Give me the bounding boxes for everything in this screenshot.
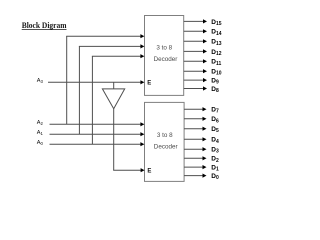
wire output D6 of U2 [184, 117, 206, 121]
decoder U1 (3 to 8 Decoder, top) [145, 16, 184, 96]
svg-text:D1: D1 [211, 165, 219, 173]
label D0 [211, 173, 219, 181]
wire output D0 of U2 [184, 174, 206, 178]
svg-text:3 to 8: 3 to 8 [156, 44, 172, 51]
wire branch A0 vertical [91, 56, 93, 144]
wire output D2 of U2 [184, 156, 206, 160]
label D8 [211, 86, 219, 94]
svg-text:D12: D12 [211, 49, 221, 57]
svg-text:E: E [147, 168, 151, 174]
svg-text:D13: D13 [211, 39, 221, 47]
svg-text:D10: D10 [211, 69, 221, 77]
label D1 [211, 165, 219, 173]
pin E of U2 [147, 168, 151, 174]
label D6 [211, 116, 219, 124]
svg-text:D9: D9 [211, 78, 219, 86]
svg-text:D5: D5 [211, 126, 219, 134]
wire A3 to E of U1 [48, 80, 144, 84]
svg-text:D6: D6 [211, 116, 219, 124]
svg-text:A0: A0 [37, 140, 44, 146]
wire inverter output vertical [113, 109, 115, 171]
label D2 [211, 156, 219, 164]
label A3 [37, 78, 44, 84]
label A0 [37, 140, 44, 146]
wire output D5 of U2 [184, 127, 206, 131]
wire output D7 of U2 [184, 107, 206, 111]
wire A1 to U2 input [50, 132, 145, 136]
svg-text:Decoder: Decoder [154, 56, 178, 63]
wire output D14 of U1 [184, 29, 207, 33]
label D5 [211, 126, 219, 134]
svg-text:D4: D4 [211, 137, 219, 145]
label D4 [211, 137, 219, 145]
title "Block Digram" [22, 20, 68, 30]
wire output D12 of U1 [184, 49, 207, 53]
wire output D11 of U1 [184, 59, 207, 63]
svg-text:A2: A2 [37, 120, 44, 126]
svg-text:D14: D14 [211, 29, 221, 37]
svg-text:D11: D11 [211, 59, 221, 67]
wire output D3 of U2 [184, 147, 206, 151]
svg-text:A1: A1 [37, 130, 44, 136]
wire A0 to U1 input [92, 54, 144, 58]
wire A1 to U1 input [79, 44, 144, 48]
wire output D13 of U1 [184, 39, 207, 43]
label D9 [211, 78, 219, 86]
wire output D8 of U1 [184, 86, 207, 90]
pin E of U1 [147, 80, 151, 86]
label D3 [211, 147, 219, 155]
wire output D1 of U2 [184, 165, 206, 169]
decoder U2 (3 to 8 Decoder, bottom) [145, 102, 185, 181]
svg-text:3 to 8: 3 to 8 [157, 132, 173, 139]
svg-text:D3: D3 [211, 147, 219, 155]
wire A3 to inverter input [113, 82, 115, 89]
wire branch A1 vertical [78, 46, 80, 134]
wire A2 to U2 input [50, 122, 145, 126]
svg-text:D2: D2 [211, 156, 219, 164]
inverter U3 (NOT gate on A3) [102, 89, 124, 109]
wire output D10 of U1 [184, 69, 207, 73]
wire A0 to U2 input [50, 142, 145, 146]
svg-text:D7: D7 [211, 107, 219, 115]
svg-text:Block Digram: Block Digram [22, 20, 68, 30]
label D13 [211, 39, 221, 47]
wire A2 to U1 input [66, 34, 144, 38]
wire output D4 of U2 [184, 137, 206, 141]
svg-text:Decoder: Decoder [154, 144, 178, 151]
label D7 [211, 107, 219, 115]
label A2 [37, 120, 44, 126]
label D10 [211, 69, 221, 77]
label D11 [211, 59, 221, 67]
svg-text:D15: D15 [211, 19, 221, 27]
wire inverter output to E of U2 [113, 168, 144, 172]
wire output D15 of U1 [184, 19, 207, 23]
label D15 [211, 19, 221, 27]
wire branch A2 vertical [66, 36, 68, 124]
svg-text:A3: A3 [37, 78, 44, 84]
label D14 [211, 29, 221, 37]
label D12 [211, 49, 221, 57]
svg-text:E: E [147, 80, 151, 86]
label A1 [37, 130, 44, 136]
svg-text:D8: D8 [211, 86, 219, 94]
wire output D9 of U1 [184, 78, 207, 82]
svg-text:D0: D0 [211, 173, 219, 181]
